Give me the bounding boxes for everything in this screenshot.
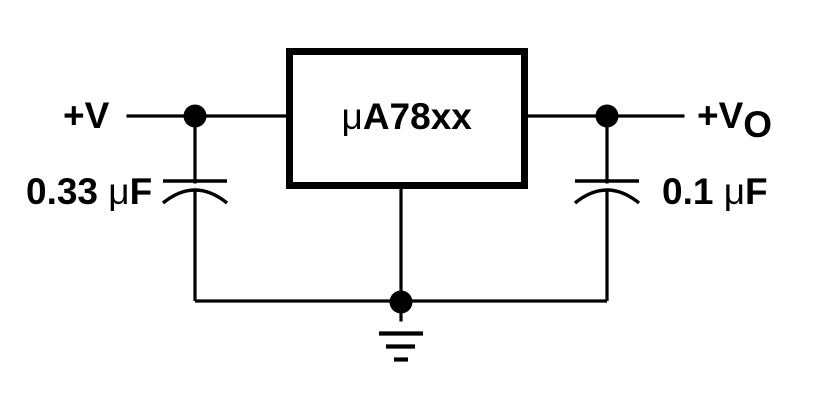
wire output rail [528, 114, 685, 117]
wire bottom rail [195, 299, 607, 302]
svg-text:0.1 μF: 0.1 μF [662, 171, 768, 212]
svg-text:0.33 μF: 0.33 μF [26, 171, 152, 212]
node +VO label [697, 95, 772, 145]
capacitor C2 value 0.1 μF [662, 171, 768, 212]
capacitor C1 top plate [163, 179, 227, 182]
wire left branch lower [193, 191, 196, 302]
svg-text:+V: +V [63, 95, 110, 136]
wire left branch upper [193, 116, 196, 184]
wire regulator ground pin [399, 189, 402, 301]
wire input rail [127, 114, 287, 117]
junction input node [184, 105, 207, 128]
regulator U1 box [290, 52, 525, 186]
regulator U1 label μA78xx [342, 96, 473, 137]
node +V label [63, 95, 110, 136]
capacitor C2 curved plate [575, 190, 639, 203]
ground [379, 334, 423, 360]
svg-text:+VO: +VO [697, 95, 772, 145]
wire ground stub [399, 301, 402, 322]
junction ground node [390, 291, 413, 314]
capacitor C1 curved plate [163, 190, 227, 203]
capacitor C1 value 0.33 μF [26, 171, 152, 212]
svg-text:μA78xx: μA78xx [342, 96, 473, 137]
wire right branch lower [605, 191, 608, 302]
capacitor C2 top plate [575, 179, 639, 182]
junction output node [596, 105, 619, 128]
wire right branch upper [605, 116, 608, 184]
